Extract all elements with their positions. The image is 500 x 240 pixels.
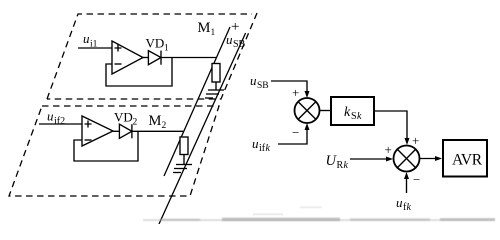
svg-text:u: u [252,136,259,151]
wire: resistor R1 to ground [215,82,217,90]
faint caption remnant at bottom [143,207,495,222]
faint cropped caption smudge [143,207,495,222]
svg-text:k: k [344,160,349,171]
wire: resistor R2 to ground [183,155,185,165]
svg-text:k: k [357,111,362,122]
wire: input to op-amp U1 + [78,47,112,49]
wire: feedback loop U1 [106,58,172,87]
ground (M2 branch) [173,165,192,173]
op-amp U1 [112,41,143,74]
svg-text:u: u [396,195,403,210]
svg-text:u: u [250,73,257,88]
wire: diode VD1 to bus node [161,57,216,59]
svg-text:if2: if2 [54,116,65,127]
svg-text:u: u [226,32,233,47]
svg-text:k: k [344,105,351,120]
panel 2 dashed parallelogram (machine unit M2 board) [9,106,219,196]
diode VD2 [119,124,131,138]
svg-text:k: k [266,143,271,154]
bus line B (solid slanted generator bus, right) [159,33,246,224]
block k_Sk [331,97,374,125]
svg-text:AVR: AVR [452,152,483,169]
wire: k_Sk to summing junction S2 [374,111,407,140]
summing junction S2 [394,146,420,172]
svg-text:VD: VD [146,36,165,51]
wire: U_Rk to S2 left with arrowhead [350,158,387,160]
wire: u_ifk to summing junction S1 bottom [278,128,307,144]
svg-text:+: + [292,85,299,100]
diode VD1 [148,51,161,65]
svg-text:M: M [198,20,211,36]
bus line A (solid slanted generator bus) [164,27,230,176]
svg-text:+: + [412,133,419,148]
arrowhead into S2 bottom [404,172,409,179]
svg-text:−: − [413,172,420,187]
svg-text:R: R [337,160,344,171]
wire: u_SB to summing junction S1 [271,81,307,93]
op-amp U2 [82,116,113,146]
svg-text:1: 1 [211,28,216,38]
svg-text:SB: SB [257,81,269,91]
arrowhead into S1 bottom [305,123,310,130]
wire: diode VD2 to bus node [132,130,183,132]
svg-text:u: u [83,31,90,46]
wire: op-amp U2 output to diode [113,130,119,132]
svg-text:S: S [351,111,357,122]
svg-text:SB: SB [233,39,246,50]
wire: S1 to k_Sk block [320,110,332,112]
panel 1 dashed parallelogram (machine unit M1 board) [47,13,257,99]
wire: u_fk to S2 bottom [406,177,408,193]
resistor R2 on bus branch [180,137,188,155]
svg-text:2: 2 [133,118,138,128]
svg-text:M: M [149,113,162,129]
svg-text:k: k [407,202,412,213]
wire: feedback loop U2 [74,131,138,161]
svg-text:−: − [292,125,299,140]
block AVR [443,140,487,177]
wire: S2 to AVR with arrowhead [420,158,437,160]
summing junction S1 [295,98,320,123]
wire: op-amp U1 output to diode [143,57,148,59]
svg-text:VD: VD [114,110,133,125]
svg-text:2: 2 [162,121,167,131]
resistor R1 on bus branch [212,64,220,83]
arrowhead into S2 top [405,138,410,145]
arrowhead into S1 top [305,91,310,98]
ground (M1 branch) [205,90,224,98]
svg-text:u: u [47,109,54,124]
svg-text:1: 1 [164,44,169,54]
wire: input to op-amp U2 + [39,123,82,125]
svg-text:+: + [385,142,392,157]
